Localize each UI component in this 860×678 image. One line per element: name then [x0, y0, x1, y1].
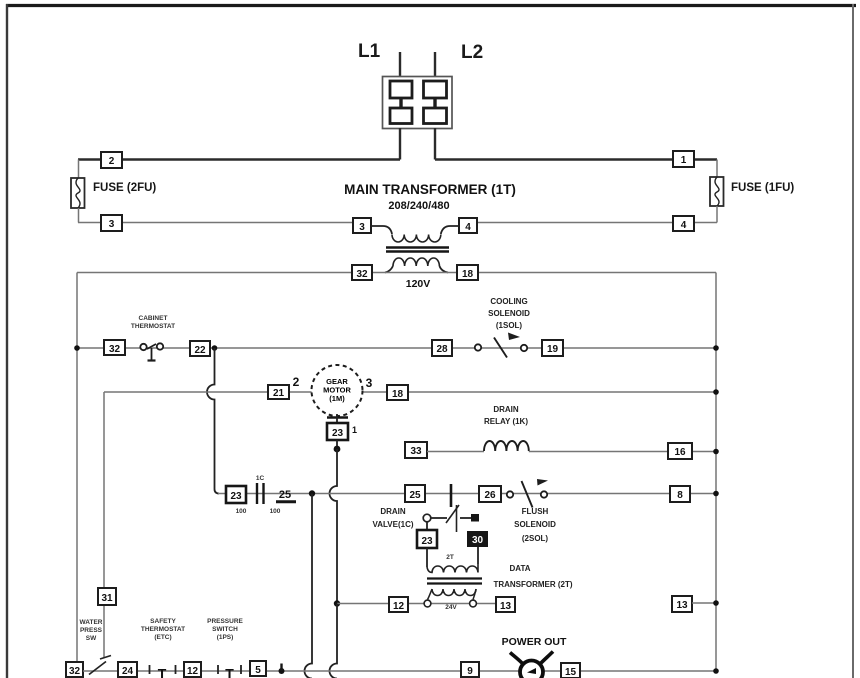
- junction right bus / motor row: [713, 389, 719, 395]
- svg-text:31: 31: [101, 593, 113, 604]
- svg-text:L1: L1: [358, 41, 381, 62]
- junction below node 23: [334, 446, 341, 453]
- svg-text:2: 2: [109, 156, 115, 167]
- wire bottom-right run: [477, 222, 717, 224]
- wire node13 to bus: [692, 602, 716, 604]
- node 22: [190, 341, 210, 356]
- node 16: [668, 443, 692, 459]
- transformer 2T secondary winding: [428, 589, 477, 600]
- svg-text:2: 2: [293, 375, 300, 389]
- svg-text:T: T: [225, 666, 234, 678]
- svg-text:25: 25: [279, 489, 291, 501]
- svg-text:16: 16: [674, 447, 686, 458]
- junction flush row branch: [309, 490, 315, 496]
- junction bottom row tap: [279, 664, 285, 675]
- junction right bus / drain relay row: [713, 449, 719, 455]
- node 13: [496, 597, 515, 612]
- svg-text:25: 25: [409, 490, 421, 501]
- node 26: [479, 486, 501, 502]
- wire motor bottom lead: [327, 414, 348, 423]
- svg-text:(1SOL): (1SOL): [496, 321, 523, 330]
- svg-text:18: 18: [462, 269, 474, 280]
- svg-text:22: 22: [194, 345, 206, 356]
- wire bottom row: [83, 670, 716, 672]
- svg-text:PRESSURE: PRESSURE: [207, 618, 243, 625]
- relay coil 1K: [484, 441, 529, 451]
- svg-text:SW: SW: [86, 635, 97, 642]
- transformer 1T secondary winding: [385, 258, 448, 273]
- svg-text:100: 100: [236, 508, 247, 515]
- junction right bus / flush row: [713, 491, 719, 497]
- svg-text:3: 3: [366, 376, 373, 390]
- node 32 bottom: [66, 662, 83, 677]
- wire node30 to 2T primary: [477, 547, 479, 564]
- node 13 at bus: [672, 596, 692, 612]
- node 4 transformer: [459, 218, 477, 233]
- svg-text:SOLENOID: SOLENOID: [488, 309, 530, 318]
- wire vertical 337 with hop at flush row: [330, 449, 338, 603]
- junction right bus / bottom row: [713, 668, 719, 674]
- svg-text:(ETC): (ETC): [154, 634, 171, 641]
- svg-text:5: 5: [255, 665, 261, 676]
- node 12 bottom: [184, 662, 201, 677]
- node 23 motor: [327, 423, 348, 440]
- svg-text:(2SOL): (2SOL): [522, 534, 549, 543]
- safety thermostat contact: [150, 665, 176, 678]
- wire drain relay row left: [427, 451, 484, 453]
- node 9: [461, 662, 479, 677]
- junction vertical337 / 24V row: [334, 600, 340, 606]
- svg-text:120V: 120V: [406, 278, 431, 290]
- svg-text:SAFETY: SAFETY: [150, 618, 176, 625]
- cooling solenoid switch: [475, 333, 527, 358]
- wire left bus: [76, 273, 78, 665]
- svg-text:9: 9: [467, 666, 473, 677]
- svg-text:12: 12: [187, 666, 199, 677]
- svg-text:4: 4: [681, 220, 687, 231]
- node 23 valve: [417, 530, 437, 548]
- svg-text:30: 30: [472, 535, 484, 546]
- svg-text:15: 15: [565, 667, 577, 678]
- svg-text:FLUSH: FLUSH: [522, 507, 549, 516]
- wire vertical 312 with hop at bottom row: [305, 494, 312, 678]
- svg-text:21: 21: [273, 388, 285, 399]
- svg-text:12: 12: [393, 601, 405, 612]
- svg-text:DRAIN: DRAIN: [493, 405, 519, 414]
- wire valve contact to node 23: [426, 522, 428, 530]
- node 28: [432, 340, 452, 356]
- svg-text:23: 23: [332, 428, 344, 439]
- fuse 1FU: [710, 177, 724, 206]
- wire left fuse drop: [78, 160, 80, 179]
- wire thermostat row: [77, 347, 716, 349]
- fuse 2FU: [71, 178, 85, 208]
- wire drain relay row right: [529, 451, 716, 453]
- node 2: [101, 152, 122, 168]
- svg-text:RELAY (1K): RELAY (1K): [484, 417, 528, 426]
- svg-text:MAIN TRANSFORMER (1T): MAIN TRANSFORMER (1T): [344, 182, 516, 197]
- terminal block TB1: [383, 77, 453, 129]
- wire bottom-left run: [78, 222, 354, 224]
- wire L2 lead: [434, 52, 436, 77]
- svg-text:32: 32: [109, 344, 121, 355]
- node 18 secondary: [457, 265, 478, 280]
- node 31: [98, 588, 116, 605]
- node 12: [389, 597, 408, 612]
- wire right bus: [715, 273, 717, 673]
- safety thermostat label: [141, 618, 185, 641]
- transformer 2T primary winding: [427, 564, 478, 573]
- node 21: [268, 385, 289, 399]
- junction right bus / 24V row: [713, 600, 719, 606]
- data transformer label: [493, 564, 572, 589]
- wire left drop of motor row: [103, 392, 105, 657]
- cabinet thermostat switch: [140, 343, 163, 360]
- svg-text:1: 1: [681, 155, 687, 166]
- node 23 flush: [226, 486, 246, 503]
- svg-text:13: 13: [676, 600, 688, 611]
- motor 1M: [312, 365, 363, 416]
- wire top-right run: [435, 158, 717, 160]
- wire branch from node 22 down with hop: [207, 348, 219, 494]
- capacitor 1C: [257, 483, 264, 504]
- svg-text:33: 33: [410, 446, 422, 457]
- svg-text:3: 3: [359, 222, 365, 233]
- svg-text:COOLING: COOLING: [490, 297, 527, 306]
- svg-text:POWER OUT: POWER OUT: [502, 636, 567, 648]
- wire right fuse to bottom run: [716, 206, 718, 223]
- node 32: [104, 340, 125, 355]
- node 1: [673, 151, 694, 167]
- svg-text:18: 18: [392, 389, 404, 400]
- junction node 22 branch: [212, 345, 218, 351]
- flush solenoid switch: [507, 479, 548, 508]
- wire from block to L1 run: [399, 128, 401, 160]
- transformer 1T core: [386, 248, 449, 252]
- node 4 right: [673, 216, 694, 231]
- svg-text:26: 26: [484, 490, 496, 501]
- water press switch label: [80, 619, 103, 642]
- svg-text:208/240/480: 208/240/480: [388, 200, 449, 212]
- wire from block to L2 run: [434, 128, 436, 160]
- node 3: [101, 215, 122, 231]
- node 8 flush: [670, 486, 690, 502]
- svg-text:8: 8: [677, 490, 683, 501]
- svg-text:32: 32: [69, 666, 81, 677]
- node 5: [250, 661, 266, 676]
- wire node23 valve to 2T primary: [426, 548, 428, 567]
- wire vertical 337 lower with hop at bottom row: [330, 604, 338, 678]
- junction right bus / thermostat row: [713, 345, 719, 351]
- svg-text:4: 4: [465, 222, 471, 233]
- pressure switch label: [207, 618, 243, 641]
- pressure switch contact: [218, 665, 241, 678]
- svg-text:(1PS): (1PS): [217, 634, 234, 641]
- svg-text:32: 32: [356, 269, 368, 280]
- node 33: [405, 442, 427, 458]
- svg-text:CABINET: CABINET: [139, 315, 168, 322]
- svg-text:VALVE(1C): VALVE(1C): [372, 520, 413, 529]
- svg-text:FUSE (2FU): FUSE (2FU): [93, 182, 156, 194]
- svg-text:SWITCH: SWITCH: [212, 626, 238, 633]
- wire 120V secondary row: [77, 272, 716, 274]
- node 25 label: [276, 489, 296, 502]
- node L1: [358, 41, 381, 62]
- wire left fuse to bottom run: [78, 208, 80, 223]
- svg-text:L2: L2: [461, 42, 483, 63]
- svg-text:28: 28: [436, 344, 448, 355]
- drain relay label: [484, 405, 528, 426]
- node 3 transformer: [353, 218, 371, 233]
- cooling solenoid label: [488, 297, 530, 330]
- junction left bus / thermostat row: [74, 345, 80, 351]
- svg-text:23: 23: [421, 536, 433, 547]
- wire node23 to junction: [336, 440, 338, 449]
- svg-text:24: 24: [122, 666, 134, 677]
- cabinet thermostat label: [131, 315, 175, 330]
- svg-text:WATER: WATER: [80, 619, 103, 626]
- secondary tap circles: [424, 600, 476, 607]
- svg-text:19: 19: [547, 344, 559, 355]
- node L2: [461, 42, 483, 63]
- svg-text:PRESS: PRESS: [80, 627, 103, 634]
- node 15: [561, 663, 580, 678]
- water press switch blade: [89, 656, 111, 675]
- svg-text:13: 13: [500, 601, 512, 612]
- svg-text:DATA: DATA: [509, 564, 530, 573]
- capacitor flush: [450, 484, 453, 507]
- flush solenoid label: [514, 507, 556, 543]
- svg-text:2T: 2T: [446, 554, 454, 561]
- node 25: [405, 485, 425, 502]
- drain valve contact: [423, 505, 479, 532]
- node 24: [118, 662, 137, 677]
- svg-text:(1M): (1M): [329, 394, 345, 403]
- wire flush row: [218, 493, 716, 495]
- transformer 2T core: [427, 579, 482, 584]
- node 30: [467, 531, 488, 547]
- svg-text:1: 1: [352, 425, 357, 435]
- svg-text:SOLENOID: SOLENOID: [514, 520, 556, 529]
- svg-text:TRANSFORMER (2T): TRANSFORMER (2T): [493, 580, 572, 589]
- transformer 1T primary winding: [371, 226, 459, 242]
- node 18 motor: [387, 385, 408, 400]
- svg-text:100: 100: [270, 508, 281, 515]
- wire 24V secondary row: [337, 603, 497, 605]
- wire top-left run: [78, 158, 400, 160]
- svg-text:T: T: [158, 666, 167, 678]
- node 19: [542, 340, 563, 356]
- svg-text:23: 23: [230, 491, 242, 502]
- node 32 secondary: [352, 265, 372, 280]
- svg-text:24V: 24V: [445, 604, 457, 611]
- wire motor row: [104, 391, 716, 393]
- drain valve label: [372, 507, 413, 529]
- wire L1 lead: [399, 52, 401, 77]
- svg-text:3: 3: [109, 219, 115, 230]
- svg-text:DRAIN: DRAIN: [380, 507, 406, 516]
- svg-text:THERMOSTAT: THERMOSTAT: [141, 626, 185, 633]
- svg-text:1C: 1C: [256, 475, 265, 482]
- svg-text:THERMOSTAT: THERMOSTAT: [131, 323, 175, 330]
- wire right fuse drop: [716, 160, 718, 178]
- svg-text:FUSE (1FU): FUSE (1FU): [731, 182, 794, 194]
- power out receptacle: [510, 652, 553, 678]
